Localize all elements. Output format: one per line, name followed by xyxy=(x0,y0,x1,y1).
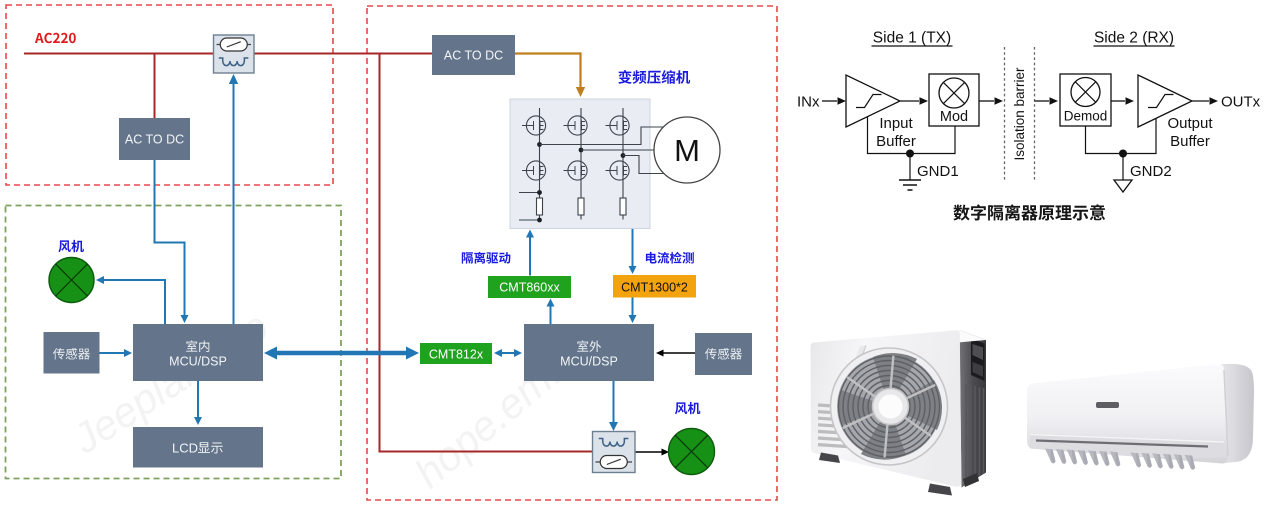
svg-text:Output: Output xyxy=(1167,115,1213,132)
svg-text:Mod: Mod xyxy=(940,109,968,125)
svg-text:GND1: GND1 xyxy=(917,163,959,180)
svg-text:GND2: GND2 xyxy=(1130,163,1172,180)
svg-text:CMT1300*2: CMT1300*2 xyxy=(621,281,688,295)
svg-text:INx: INx xyxy=(797,94,820,111)
svg-text:AC TO DC: AC TO DC xyxy=(125,133,184,147)
svg-text:Buffer: Buffer xyxy=(876,133,916,150)
svg-text:CMT812x: CMT812x xyxy=(429,348,484,362)
svg-text:Side 2 (RX): Side 2 (RX) xyxy=(1094,30,1174,47)
svg-text:Input: Input xyxy=(879,115,913,132)
svg-text:M: M xyxy=(674,133,700,168)
svg-text:Side 1 (TX): Side 1 (TX) xyxy=(873,30,951,47)
svg-text:Buffer: Buffer xyxy=(1170,133,1210,150)
svg-text:Demod: Demod xyxy=(1064,109,1108,124)
svg-text:CMT860xx: CMT860xx xyxy=(499,281,560,295)
svg-text:OUTx: OUTx xyxy=(1221,94,1261,111)
svg-text:Isolation barrier: Isolation barrier xyxy=(1012,67,1027,161)
svg-text:LCD: LCD xyxy=(172,441,198,456)
svg-text:AC TO DC: AC TO DC xyxy=(444,49,503,63)
svg-text:MCU/DSP: MCU/DSP xyxy=(560,355,618,369)
svg-text:MCU/DSP: MCU/DSP xyxy=(169,355,227,369)
